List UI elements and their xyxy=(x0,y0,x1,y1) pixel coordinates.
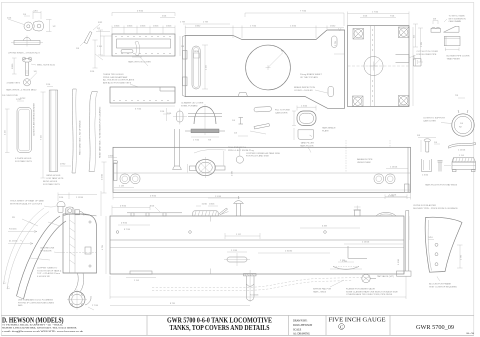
cut out for blower pipe xyxy=(396,51,439,63)
svg-text:OF THE TOPLATE: OF THE TOPLATE xyxy=(300,76,318,79)
svg-text:GWR 5700_09: GWR 5700_09 xyxy=(416,325,454,331)
svg-text:TANK FILLER: TANK FILLER xyxy=(301,142,315,145)
svg-text:UNDER TANK: UNDER TANK xyxy=(357,161,371,164)
svg-text:C: C xyxy=(340,325,343,330)
svg-text:20swg BRASS SHEET: 20swg BRASS SHEET xyxy=(300,73,322,76)
tank cover plate two (second rectangle) xyxy=(110,87,175,111)
svg-text:CAM OUTER: CAM OUTER xyxy=(423,119,436,122)
svg-text:ALL HOLES IN COVER PLATES: ALL HOLES IN COVER PLATES xyxy=(103,79,135,82)
standpipe into band xyxy=(173,129,182,170)
svg-text:THESE TWO HOLES: THESE TWO HOLES xyxy=(103,74,124,76)
svg-text:7 1/2: 7 1/2 xyxy=(41,134,43,140)
svg-text:FOR TANK VETS: FOR TANK VETS xyxy=(43,183,60,186)
tank brace plate label xyxy=(322,127,336,133)
svg-text:CAN FRAME: CAN FRAME xyxy=(449,20,462,23)
svg-text:COVER - 4 HOLES: COVER - 4 HOLES xyxy=(294,90,313,92)
svg-text:TANK VENTS - 4 HOLES MK02: TANK VENTS - 4 HOLES MK02 xyxy=(6,89,37,92)
blower cover end block with domes xyxy=(431,19,441,33)
svg-text:4 HOLES 3/8: 4 HOLES 3/8 xyxy=(37,276,50,278)
T-bolt for tank vents xyxy=(12,57,56,75)
svg-text:FOR TANK VETS: FOR TANK VETS xyxy=(47,177,64,180)
svg-text:1 5/8: 1 5/8 xyxy=(232,170,234,176)
tank side elevation outline xyxy=(110,216,404,274)
svg-text:2 7/8: 2 7/8 xyxy=(461,254,463,260)
filler leader on rear band xyxy=(308,148,311,153)
bolt pin part xyxy=(417,135,440,152)
svg-text:CLEANER LID COVER: CLEANER LID COVER xyxy=(181,102,204,105)
svg-text:TANK FILLETS FOR STAY ENDS: TANK FILLETS FOR STAY ENDS xyxy=(425,184,458,187)
svg-text:1 15/16: 1 15/16 xyxy=(389,195,397,197)
front right vertical dim xyxy=(100,191,102,216)
svg-text:FOR BLOWER PIPE: FOR BLOWER PIPE xyxy=(417,54,437,56)
rounded slot in top plate xyxy=(192,46,200,89)
svg-text:FOR FILLET AND STAY: FOR FILLET AND STAY xyxy=(246,155,270,158)
svg-text:TO WTS 2 TANK: TO WTS 2 TANK xyxy=(449,15,466,18)
svg-text:TANK VETS IN COVER: TANK VETS IN COVER xyxy=(128,61,151,64)
svg-text:COPPER FORMED AS TANK SIDE: COPPER FORMED AS TANK SIDE xyxy=(246,152,281,155)
svg-text:4 9/16: 4 9/16 xyxy=(120,206,127,208)
tank vent bolt hole circle xyxy=(2,71,37,100)
elevation bottom dimension rows xyxy=(102,216,406,306)
svg-text:TAP VALVE (1/8"): TAP VALVE (1/8") xyxy=(377,275,394,278)
svg-text:FIVE INCH GAUGE: FIVE INCH GAUGE xyxy=(329,317,386,324)
svg-text:CAM LEVER: CAM LEVER xyxy=(275,111,288,114)
note: holes in cover plates xyxy=(103,74,138,87)
svg-text:13/16: 13/16 xyxy=(166,26,172,28)
tank rear elevation band xyxy=(113,147,411,192)
svg-text:6 7/16: 6 7/16 xyxy=(135,109,142,111)
svg-text:1 1/2: 1 1/2 xyxy=(5,129,7,135)
svg-text:A1: DRAWING: A1: DRAWING xyxy=(293,332,310,335)
svg-text:2 7/16: 2 7/16 xyxy=(92,305,99,307)
lid tray section xyxy=(444,158,476,172)
svg-text:8 7/16: 8 7/16 xyxy=(124,229,131,231)
U bracket xyxy=(422,159,432,177)
svg-text:BLOWER PIPE COVER: BLOWER PIPE COVER xyxy=(447,56,470,58)
title block: maker cell xyxy=(2,316,84,333)
tank vent cover dimensions xyxy=(97,11,185,57)
svg-text:1 15/16: 1 15/16 xyxy=(458,150,466,152)
second vdim left of vent cover xyxy=(96,28,110,55)
small cover section left of dome xyxy=(167,109,187,125)
top plate dimension rows xyxy=(180,11,344,39)
blower pipe cover label xyxy=(447,56,470,61)
svg-text:27/32: 27/32 xyxy=(60,164,66,166)
strip footnote xyxy=(43,181,60,186)
svg-text:ARE ALSO FOR TANK VETS: ARE ALSO FOR TANK VETS xyxy=(103,81,132,84)
svg-text:DRAWN BY:: DRAWN BY: xyxy=(293,319,308,322)
bottom step plate xyxy=(126,271,156,282)
svg-text:BAD: BAD xyxy=(18,304,23,307)
note: sheet at rear of tank xyxy=(10,200,56,208)
svg-text:100 x 700: 100 x 700 xyxy=(466,333,474,335)
svg-text:13/16: 13/16 xyxy=(114,26,120,28)
svg-text:2 1/8: 2 1/8 xyxy=(421,41,423,47)
tank side wavy strip S2 xyxy=(72,89,82,173)
svg-text:REAR TANK SIDE - TO BE HIDDEN: REAR TANK SIDE - TO BE HIDDEN FOR CLEANI… xyxy=(99,106,102,158)
filler oval ring xyxy=(292,106,316,141)
right rounded slot near plate edge xyxy=(332,28,345,54)
svg-text:4 9/16: 4 9/16 xyxy=(121,223,128,225)
svg-text:PIPE LG BOT FROM P1ug: PIPE LG BOT FROM P1ug xyxy=(228,150,255,152)
svg-text:15/32: 15/32 xyxy=(330,26,336,28)
tall vent cover plate left xyxy=(5,99,36,163)
svg-text:4 9/16: 4 9/16 xyxy=(150,196,157,198)
svg-text:FOR TANK VETS: FOR TANK VETS xyxy=(15,160,32,163)
lifting ring dimension lines xyxy=(23,11,56,32)
swoosh outer dimension arc xyxy=(4,208,45,284)
blaster curve note xyxy=(413,204,458,210)
svg-text:DELIVERY PIPE - PRICE FROM D+W: DELIVERY PIPE - PRICE FROM D+W BRACE xyxy=(413,207,458,210)
svg-text:BEND HOLES: BEND HOLES xyxy=(47,175,61,177)
overflow pipe stub on top right xyxy=(354,206,362,217)
svg-text:1 3/16: 1 3/16 xyxy=(290,26,297,28)
svg-text:1 3/16: 1 3/16 xyxy=(301,106,308,108)
balance pipe dashed run xyxy=(152,277,370,290)
svg-text:1 1/2: 1 1/2 xyxy=(236,234,242,236)
internal L bracket xyxy=(342,246,367,263)
lifting ring link plan view xyxy=(7,18,44,32)
tank side channel strip S1 xyxy=(46,84,71,180)
gauge bracket note xyxy=(194,146,255,166)
title block frame xyxy=(1,316,474,336)
seam rivets xyxy=(116,231,326,234)
svg-text:1 7/16: 1 7/16 xyxy=(372,12,379,14)
title block: drawing title xyxy=(167,317,272,332)
side elevation seam lines xyxy=(110,240,404,248)
svg-text:6 3/8: 6 3/8 xyxy=(322,226,328,228)
tank vent cover plan (top rectangle) xyxy=(112,34,175,64)
svg-text:1 1/16: 1 1/16 xyxy=(398,258,400,265)
svg-text:1/4 OVER STUD: 1/4 OVER STUD xyxy=(2,95,19,97)
svg-text:1 13/16: 1 13/16 xyxy=(390,167,398,169)
title block: gauge cell xyxy=(329,317,386,330)
plate joint ticks xyxy=(210,216,212,274)
inspection cover slot xyxy=(328,87,334,97)
leader to formed angle xyxy=(93,22,148,66)
cam outer cover ring xyxy=(423,110,474,136)
copper tubes note xyxy=(37,268,62,278)
svg-text:THICK SHEET OF REAR OF TANK: THICK SHEET OF REAR OF TANK xyxy=(10,200,44,203)
tank front top fittings xyxy=(57,202,97,216)
svg-text:COPPER TUBES TO: COPPER TUBES TO xyxy=(37,268,58,270)
svg-text:BRASS INSPECTION: BRASS INSPECTION xyxy=(294,86,315,89)
front top dim row xyxy=(58,193,97,202)
elevation right end angle xyxy=(397,211,412,277)
tank filler pipe dashed xyxy=(300,140,390,172)
drain flange circles xyxy=(67,290,99,311)
tank filler lid xyxy=(298,130,314,145)
title block: drawing number cell xyxy=(416,325,474,335)
handrail on tank top xyxy=(127,206,182,217)
cleaner lid cover label xyxy=(181,102,204,108)
svg-text:4 TANK VETS: 4 TANK VETS xyxy=(7,82,21,85)
svg-text:SCALE: SCALE xyxy=(293,328,302,331)
svg-text:FILL TO FORM: FILL TO FORM xyxy=(275,110,290,112)
svg-text:CUT SLOT IN COVER: CUT SLOT IN COVER xyxy=(417,51,439,53)
vertical dim left of strips xyxy=(41,92,46,178)
bottom notch on plate xyxy=(238,93,248,97)
dim right of plate B xyxy=(418,28,423,62)
svg-text:WING TANK SIDE + NO OF BRACE: WING TANK SIDE + NO OF BRACE xyxy=(79,120,82,155)
svg-text:FLANGE FOR WATER VALVE: FLANGE FOR WATER VALVE xyxy=(346,288,376,291)
svg-text:1 3/4: 1 3/4 xyxy=(97,46,103,48)
svg-text:FITTING IF CORROSION BECOMES: FITTING IF CORROSION BECOMES xyxy=(18,302,54,304)
leaders on front fittings xyxy=(30,222,60,260)
small clack valve circle xyxy=(236,147,243,163)
svg-text:74 15/16: 74 15/16 xyxy=(250,295,259,297)
blower cover wedge section xyxy=(444,26,460,32)
svg-text:13/16: 13/16 xyxy=(127,26,133,28)
svg-text:8 7/8: 8 7/8 xyxy=(170,303,176,305)
svg-text:PIPES CAN DISAPPEAR: PIPES CAN DISAPPEAR xyxy=(103,76,128,79)
svg-text:1 1/4: 1 1/4 xyxy=(459,155,465,157)
svg-text:1 1/16: 1 1/16 xyxy=(231,250,238,252)
svg-text:CURVE FOR BLASTER: CURVE FOR BLASTER xyxy=(413,204,436,207)
svg-text:13/16: 13/16 xyxy=(194,51,200,53)
svg-text:2 7/8: 2 7/8 xyxy=(335,40,337,46)
svg-text:TANKS, TOP COVERS AND DETAILS: TANKS, TOP COVERS AND DETAILS xyxy=(170,325,270,332)
tank side wavy strip S3 xyxy=(89,92,102,172)
tank top plan plate outline xyxy=(183,30,345,108)
svg-text:13/16: 13/16 xyxy=(209,203,215,205)
svg-text:1 7/16: 1 7/16 xyxy=(250,26,257,28)
plate B filler circle xyxy=(364,57,383,76)
svg-text:13/16: 13/16 xyxy=(108,156,114,158)
vertical dim left of vent cover xyxy=(90,40,103,73)
water gauge fitting xyxy=(188,157,234,178)
blocks for frame note xyxy=(429,277,457,289)
drain valve xyxy=(362,274,394,282)
svg-text:BLOCKS FOR FRAME: BLOCKS FOR FRAME xyxy=(429,283,451,286)
svg-text:13/16: 13/16 xyxy=(153,26,159,28)
svg-text:DOUG HEWSON: DOUG HEWSON xyxy=(293,324,312,327)
plate B dimension row xyxy=(348,12,416,107)
svg-text:1 1/4: 1 1/4 xyxy=(134,280,140,282)
band left post fitting xyxy=(108,156,118,181)
centre line of boiler note xyxy=(40,248,63,253)
svg-text:WELL NUTS No10: WELL NUTS No10 xyxy=(37,65,56,67)
svg-text:BLIND HOLES: BLIND HOLES xyxy=(43,181,58,183)
cam lever slot xyxy=(254,107,290,115)
svg-text:4 7/8: 4 7/8 xyxy=(102,244,104,250)
balance pipe ovals right xyxy=(357,158,408,184)
vdim left of blower parts xyxy=(413,24,418,47)
svg-text:1 11/16: 1 11/16 xyxy=(76,197,84,199)
tank filler hole circle on top plate xyxy=(246,45,291,90)
svg-text:TO BOTTOM OF TANK &: TO BOTTOM OF TANK & xyxy=(37,269,62,272)
angled bracket right of pad xyxy=(220,208,228,215)
svg-text:2 7/8: 2 7/8 xyxy=(203,22,209,24)
svg-text:COVER TO SUPPORT: COVER TO SUPPORT xyxy=(423,118,446,120)
cleaner lid cover dome section xyxy=(185,104,225,142)
svg-text:GET SCREWS IN: GET SCREWS IN xyxy=(449,18,467,20)
svg-text:13/16: 13/16 xyxy=(140,26,146,28)
svg-text:e-mail: doug@hewsons.co.uk WEB: e-mail: doug@hewsons.co.uk WEB SITE: www… xyxy=(2,330,84,333)
rear band lower dimension xyxy=(102,162,411,200)
lift hole flange pad on top xyxy=(193,196,240,216)
balance pipe ovals left xyxy=(114,174,140,188)
svg-text:15/16: 15/16 xyxy=(202,203,208,205)
svg-text:LIFTING RINGS - 4 HOLES No 8: LIFTING RINGS - 4 HOLES No 8 xyxy=(8,53,40,55)
plumbing fitting note xyxy=(18,299,54,308)
svg-text:4 PLATE HOLES: 4 PLATE HOLES xyxy=(15,157,32,160)
svg-text:2 1/8: 2 1/8 xyxy=(414,54,416,60)
svg-text:R 15/16: R 15/16 xyxy=(9,229,17,231)
svg-text:2 31/32: 2 31/32 xyxy=(285,251,293,253)
svg-text:TEAK FINISH: TEAK FINISH xyxy=(447,57,461,60)
top plate notes xyxy=(294,73,328,93)
svg-text:COVER PLATE BEHIND BUNKER: COVER PLATE BEHIND BUNKER xyxy=(33,103,36,136)
svg-text:SIPHON PAD FOR: SIPHON PAD FOR xyxy=(313,288,332,291)
lifting ring side view xyxy=(8,36,43,55)
curved front plate swoosh xyxy=(7,212,66,300)
sump dish under tank xyxy=(330,260,362,270)
plate A edge tabs xyxy=(183,51,188,86)
small open box part xyxy=(414,59,422,67)
cam lever small parts xyxy=(232,118,270,135)
svg-text:OF BOILER: OF BOILER xyxy=(40,250,52,252)
svg-text:GWR 5700 0-6-0 TANK LOCOMOTIVE: GWR 5700 0-6-0 TANK LOCOMOTIVE xyxy=(167,317,272,324)
copper formed note xyxy=(246,152,281,158)
svg-text:1 7/8: 1 7/8 xyxy=(340,260,346,262)
svg-text:1 5/16: 1 5/16 xyxy=(215,196,222,198)
labels below elevation xyxy=(313,280,398,296)
svg-text:13/32: 13/32 xyxy=(195,26,201,28)
svg-text:USE STANDARD 15mm PLUMBING: USE STANDARD 15mm PLUMBING xyxy=(18,299,53,302)
svg-text:STEEL FORMED: STEEL FORMED xyxy=(181,105,198,107)
elevation internal dimensions xyxy=(118,223,403,254)
leaf spring curved strip xyxy=(449,143,476,157)
formed angle piece xyxy=(132,42,142,58)
dim above elevation left xyxy=(112,206,150,216)
tank fillets label xyxy=(425,184,458,187)
svg-text:1 5/16: 1 5/16 xyxy=(102,173,104,180)
angle bracket top-left of cover xyxy=(76,32,92,51)
pipe hump cover right xyxy=(376,213,396,217)
svg-text:FULL BRACKET &: FULL BRACKET & xyxy=(228,146,246,149)
svg-text:1 7/16: 1 7/16 xyxy=(193,140,200,142)
tank top rear plate (plate B) xyxy=(348,26,410,107)
svg-text:WITH HIGH QUALITY CUTOUTS: WITH HIGH QUALITY CUTOUTS xyxy=(10,202,43,205)
T pin xyxy=(438,160,443,171)
slot dimension xyxy=(202,45,208,89)
feed pipe drop tube xyxy=(244,270,257,302)
svg-text:1 3/16: 1 3/16 xyxy=(422,175,429,177)
hand slot xyxy=(224,250,250,266)
svg-text:17/32: 17/32 xyxy=(16,99,22,101)
svg-text:SOME CLASSES HAVE ONE INJECTOR: SOME CLASSES HAVE ONE INJECTOR EACH SIDE xyxy=(346,290,398,293)
drain pipe from tank front xyxy=(75,273,84,293)
curved splash plate xyxy=(425,217,462,272)
svg-text:13/16: 13/16 xyxy=(12,63,14,69)
elevation top-right dims xyxy=(385,195,409,241)
blower pipe cover corner note xyxy=(444,15,466,24)
dims above vent cover xyxy=(160,16,175,18)
svg-text:OTHERS HAVE TWO INJECTORS, PIP: OTHERS HAVE TWO INJECTORS, PIPE RUNS xyxy=(346,293,393,296)
svg-text:TEST COVER IF REQUIRED: TEST COVER IF REQUIRED xyxy=(429,286,457,288)
svg-text:TOP - 4 PLACES 15mm: TOP - 4 PLACES 15mm xyxy=(37,272,60,275)
svg-text:1 1/8: 1 1/8 xyxy=(119,186,125,188)
svg-text:2 1/4: 2 1/4 xyxy=(206,64,208,70)
svg-text:2 13/16: 2 13/16 xyxy=(362,242,370,244)
tank front body xyxy=(63,214,97,273)
svg-text:7 7/16: 7 7/16 xyxy=(300,11,307,13)
svg-text:CENTRE LINE: CENTRE LINE xyxy=(40,248,55,250)
svg-text:TANK - MK03: TANK - MK03 xyxy=(313,290,327,293)
svg-text:TANK BRACE: TANK BRACE xyxy=(322,127,336,130)
svg-text:PLATE: PLATE xyxy=(322,129,329,132)
swoosh dimensions xyxy=(8,219,38,245)
svg-text:4 9/16: 4 9/16 xyxy=(137,11,144,13)
svg-text:BALANCE PIPE: BALANCE PIPE xyxy=(357,158,373,161)
mushroom vent xyxy=(234,196,244,216)
svg-text:1 7/8: 1 7/8 xyxy=(180,22,186,24)
small dims mid sheet xyxy=(160,95,465,136)
blower pipe cover plate xyxy=(444,36,460,51)
svg-text:TANK FILLER: TANK FILLER xyxy=(300,145,314,148)
plate B corner pads xyxy=(353,27,410,107)
title block: drawn-by cell xyxy=(293,319,312,335)
